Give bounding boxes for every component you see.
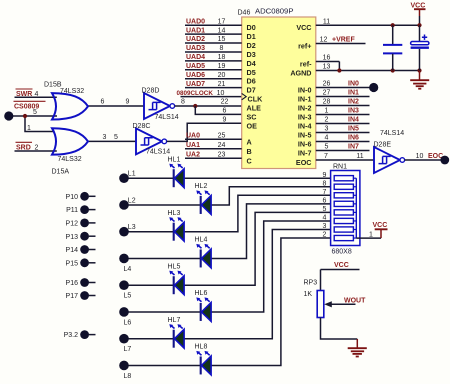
svg-text:OE: OE bbox=[247, 121, 258, 130]
svg-text:D46: D46 bbox=[238, 10, 251, 17]
wire 0809CLOCK to CLK pin10 bbox=[181, 96, 242, 98]
svg-text:P11: P11 bbox=[66, 207, 78, 214]
wire D28E out pin10 to EOC terminal bbox=[405, 159, 444, 161]
svg-text:28: 28 bbox=[323, 99, 331, 106]
svg-text:D6: D6 bbox=[247, 77, 256, 86]
resistor RN1 element 6 bbox=[334, 218, 353, 223]
svg-text:SRD: SRD bbox=[16, 144, 31, 151]
svg-text:74LS14: 74LS14 bbox=[155, 114, 179, 121]
VCC stem bbox=[419, 9, 421, 16]
svg-text:UA0: UA0 bbox=[186, 133, 200, 140]
svg-text:D3: D3 bbox=[247, 50, 256, 59]
wire IN0 stub bbox=[316, 87, 370, 89]
power VCC at RN1 bbox=[375, 228, 388, 230]
svg-text:18: 18 bbox=[218, 54, 226, 61]
svg-text:22: 22 bbox=[221, 99, 229, 106]
svg-text:IN-2: IN-2 bbox=[298, 104, 312, 113]
wire UA0 stub bbox=[185, 138, 242, 140]
svg-text:UA1: UA1 bbox=[186, 142, 200, 149]
svg-text:VCC: VCC bbox=[296, 23, 311, 32]
wire CS0809 to D15B pin5 bbox=[13, 115, 57, 117]
svg-text:L2: L2 bbox=[128, 197, 136, 204]
wire SWR to D15B pin4 bbox=[15, 96, 57, 98]
junction ALE/SC node bbox=[193, 104, 197, 108]
svg-text:9: 9 bbox=[323, 172, 327, 179]
svg-text:D1: D1 bbox=[247, 32, 256, 41]
svg-text:IN-3: IN-3 bbox=[298, 113, 312, 122]
terminal L5 bbox=[119, 280, 129, 290]
svg-text:P14: P14 bbox=[66, 247, 79, 254]
svg-text:12: 12 bbox=[320, 37, 328, 44]
wire RP3 bottom to ground bbox=[321, 318, 358, 340]
svg-text:ADC0809P: ADC0809P bbox=[255, 7, 293, 16]
wire UA2 stub bbox=[185, 157, 242, 159]
svg-text:2: 2 bbox=[325, 117, 329, 124]
svg-text:11: 11 bbox=[356, 153, 363, 160]
LED HL5 bbox=[169, 271, 184, 295]
svg-text:IN-0: IN-0 bbox=[298, 86, 312, 95]
svg-text:IN-6: IN-6 bbox=[298, 140, 312, 149]
junction C1 bottom bbox=[391, 68, 395, 72]
svg-text:3: 3 bbox=[325, 126, 329, 133]
terminal P11 bbox=[80, 205, 89, 214]
LED HL7 bbox=[169, 324, 184, 348]
terminal P12 bbox=[80, 219, 89, 228]
svg-text:C: C bbox=[247, 156, 252, 165]
clock input mark on CLK bbox=[242, 93, 247, 99]
svg-text:IN1: IN1 bbox=[348, 90, 359, 97]
wire RP3 top lead bbox=[320, 270, 322, 291]
svg-text:SWR: SWR bbox=[16, 91, 32, 98]
wire D28D out pin8 to ALE pin22 bbox=[175, 105, 242, 107]
wire EOC pin7 to D28E bbox=[316, 159, 374, 161]
svg-text:1K: 1K bbox=[304, 291, 313, 298]
svg-text:UAD0: UAD0 bbox=[186, 18, 205, 25]
terminal P14 bbox=[80, 245, 89, 254]
svg-text:D15A: D15A bbox=[52, 169, 70, 176]
svg-text:3: 3 bbox=[103, 134, 107, 141]
wire ref- pin16 bbox=[316, 61, 340, 63]
svg-text:4: 4 bbox=[35, 91, 39, 98]
overline SWR bbox=[16, 88, 33, 90]
svg-text:WOUT: WOUT bbox=[344, 298, 366, 305]
svg-text:25: 25 bbox=[218, 133, 226, 140]
svg-text:3: 3 bbox=[323, 223, 327, 230]
wire UAD3 stub bbox=[185, 51, 242, 53]
wire D28C out pin6 to OE pin9 bbox=[167, 123, 242, 141]
svg-text:P13: P13 bbox=[66, 234, 79, 241]
LED HL3 bbox=[169, 217, 184, 241]
svg-text:14: 14 bbox=[218, 27, 226, 34]
resistor RN1 element 5 bbox=[334, 210, 353, 215]
wire L2 row to RN1 pin8 bbox=[124, 187, 331, 205]
capacitor C1 bbox=[392, 25, 394, 44]
LED HL1 bbox=[169, 164, 184, 188]
svg-text:RP3: RP3 bbox=[304, 280, 318, 287]
inverter D28D 74LS14 bbox=[144, 93, 175, 119]
wire UAD4 stub bbox=[185, 60, 242, 62]
terminal P16 bbox=[80, 278, 89, 287]
svg-text:UAD3: UAD3 bbox=[186, 45, 205, 52]
overline SRD bbox=[16, 141, 33, 143]
wire SRD to D15A pin2 bbox=[15, 150, 57, 152]
resistor RN1 element 7 bbox=[334, 227, 353, 232]
LED HL8 bbox=[196, 351, 211, 375]
svg-text:15: 15 bbox=[218, 36, 226, 43]
svg-text:1: 1 bbox=[325, 108, 329, 115]
svg-text:+VREF: +VREF bbox=[332, 37, 355, 44]
svg-text:16: 16 bbox=[323, 55, 331, 62]
svg-text:IN5: IN5 bbox=[348, 126, 359, 133]
svg-text:680X8: 680X8 bbox=[332, 248, 352, 255]
svg-text:26: 26 bbox=[323, 81, 331, 88]
stub P11 bbox=[89, 209, 96, 211]
terminal P17 bbox=[80, 291, 89, 300]
wire IN5 stub bbox=[316, 132, 370, 134]
svg-text:74LS32: 74LS32 bbox=[58, 156, 82, 163]
inverter D28E 74LS14 bbox=[374, 147, 405, 173]
svg-text:UAD6: UAD6 bbox=[186, 72, 205, 79]
svg-text:HL3: HL3 bbox=[168, 210, 181, 217]
svg-text:D28C: D28C bbox=[133, 123, 151, 130]
wire L8 row to RN1 pin2 bbox=[124, 238, 331, 365]
wire CS0809 branch to D15A pin1 bbox=[25, 116, 54, 132]
svg-text:8: 8 bbox=[220, 45, 224, 52]
wire L1 row to RN1 pin9 bbox=[124, 177, 331, 179]
wire D15A out pin3 to D28C in pin5 bbox=[88, 140, 136, 142]
svg-text:D4: D4 bbox=[247, 59, 256, 68]
svg-text:HL4: HL4 bbox=[195, 237, 208, 244]
VCC stem lower bbox=[419, 16, 421, 25]
svg-text:5: 5 bbox=[323, 206, 327, 213]
svg-text:B: B bbox=[247, 147, 252, 156]
svg-text:HL6: HL6 bbox=[195, 290, 208, 297]
terminal L1 bbox=[119, 173, 129, 183]
svg-text:UAD7: UAD7 bbox=[186, 81, 205, 88]
terminal L4 bbox=[119, 254, 129, 264]
wire UAD1 stub bbox=[185, 33, 242, 35]
svg-text:4: 4 bbox=[323, 215, 327, 222]
svg-text:L5: L5 bbox=[124, 293, 132, 300]
wire UA1 stub bbox=[185, 148, 242, 150]
wire IN7 stub bbox=[316, 150, 370, 152]
junction C2 bottom bbox=[417, 68, 421, 72]
svg-text:6: 6 bbox=[223, 108, 227, 115]
wire UAD6 stub bbox=[185, 78, 242, 80]
svg-text:6: 6 bbox=[323, 197, 327, 204]
junction CS0809 branch bbox=[23, 114, 27, 118]
stub P12 bbox=[89, 222, 96, 224]
svg-text:5: 5 bbox=[33, 109, 37, 116]
terminal P3.2 bbox=[80, 330, 89, 339]
svg-text:D5: D5 bbox=[247, 68, 256, 77]
svg-text:D2: D2 bbox=[247, 41, 256, 50]
wire +VREF stub pin12 bbox=[316, 43, 366, 45]
svg-text:L1: L1 bbox=[128, 171, 136, 178]
terminal L7 bbox=[119, 334, 129, 344]
svg-text:IN4: IN4 bbox=[348, 117, 359, 124]
stub P14 bbox=[89, 249, 96, 251]
stub P3.2 bbox=[89, 334, 96, 336]
svg-text:4: 4 bbox=[325, 135, 329, 142]
terminal P15 bbox=[80, 258, 89, 267]
svg-text:L6: L6 bbox=[124, 319, 132, 326]
resistor RN1 element 3 bbox=[334, 193, 353, 198]
svg-text:L8: L8 bbox=[124, 373, 132, 380]
svg-text:74LS14: 74LS14 bbox=[146, 149, 170, 156]
wire D15B out pin6 to D28D in pin9 bbox=[88, 105, 144, 107]
resistor RN1 element 8 bbox=[334, 235, 353, 240]
terminal P13 bbox=[80, 232, 89, 241]
wire IN6 stub bbox=[316, 141, 370, 143]
wire L5 row to RN1 pin5 bbox=[124, 212, 331, 285]
svg-text:IN-7: IN-7 bbox=[298, 149, 312, 158]
wire ref- drop bbox=[338, 62, 340, 71]
svg-text:ref-: ref- bbox=[300, 60, 312, 69]
svg-text:SC: SC bbox=[247, 112, 257, 121]
svg-text:VCC: VCC bbox=[334, 262, 349, 269]
svg-text:27: 27 bbox=[323, 90, 331, 97]
svg-text:D0: D0 bbox=[247, 23, 256, 32]
svg-text:2: 2 bbox=[35, 144, 39, 151]
wire WOUT stub bbox=[330, 303, 356, 305]
svg-text:P16: P16 bbox=[66, 280, 79, 287]
svg-text:RN1: RN1 bbox=[333, 163, 347, 170]
svg-text:VCC: VCC bbox=[411, 2, 426, 9]
svg-text:2: 2 bbox=[323, 232, 327, 239]
ground at RP3 bbox=[356, 339, 358, 348]
IC D46 ADC0809P body bbox=[242, 17, 316, 169]
wire L6 row to RN1 pin4 bbox=[124, 221, 331, 312]
svg-text:D28D: D28D bbox=[142, 87, 160, 94]
resistor RN1 element 2 bbox=[334, 184, 353, 189]
wire IN2 stub bbox=[316, 105, 370, 107]
svg-text:UAD2: UAD2 bbox=[186, 36, 205, 43]
svg-text:L4: L4 bbox=[124, 266, 132, 273]
svg-text:AGND: AGND bbox=[290, 69, 311, 78]
svg-text:1: 1 bbox=[27, 125, 31, 132]
terminal EOC bbox=[440, 156, 449, 165]
svg-text:IN-5: IN-5 bbox=[298, 131, 312, 140]
wire UAD7 stub bbox=[185, 87, 242, 89]
wire IN1 stub bbox=[316, 96, 370, 98]
svg-text:7: 7 bbox=[324, 153, 328, 160]
wire UAD5 stub bbox=[185, 69, 242, 71]
svg-text:5: 5 bbox=[114, 134, 118, 141]
svg-text:D28E: D28E bbox=[374, 142, 392, 149]
svg-text:UAD5: UAD5 bbox=[186, 63, 205, 70]
wire L3 row to RN1 pin7 bbox=[124, 195, 331, 231]
svg-text:L3: L3 bbox=[128, 224, 136, 231]
svg-text:24: 24 bbox=[218, 142, 226, 149]
svg-text:UA2: UA2 bbox=[186, 152, 200, 159]
wire UAD2 stub bbox=[185, 42, 242, 44]
wire IN3 stub bbox=[316, 114, 370, 116]
stub P16 bbox=[89, 282, 96, 284]
svg-text:5: 5 bbox=[325, 144, 329, 151]
svg-text:1: 1 bbox=[369, 231, 373, 238]
junction C1 top bbox=[391, 23, 395, 27]
terminal CS0809 bbox=[4, 111, 13, 120]
svg-text:19: 19 bbox=[218, 63, 226, 70]
ground AGND symbol bbox=[419, 71, 421, 81]
wire IN4 stub bbox=[316, 123, 370, 125]
svg-text:74LS14: 74LS14 bbox=[380, 130, 404, 137]
stub P13 bbox=[89, 235, 96, 237]
svg-text:7: 7 bbox=[323, 189, 327, 196]
svg-text:17: 17 bbox=[218, 18, 226, 25]
svg-text:UAD1: UAD1 bbox=[186, 27, 205, 34]
svg-text:HL2: HL2 bbox=[195, 183, 208, 190]
resistor network RN1 680X8 bbox=[331, 171, 360, 246]
svg-text:IN-1: IN-1 bbox=[298, 95, 312, 104]
wire RN1 pin1 to VCC bbox=[356, 237, 381, 239]
terminal IN0 bbox=[369, 83, 378, 92]
LED HL6 bbox=[196, 297, 211, 321]
stub P17 bbox=[89, 295, 96, 297]
junction C2 top bbox=[417, 23, 421, 27]
svg-text:ALE: ALE bbox=[247, 103, 262, 112]
svg-text:13: 13 bbox=[323, 64, 331, 71]
svg-text:9: 9 bbox=[126, 99, 130, 106]
LED HL2 bbox=[196, 190, 211, 214]
svg-text:P10: P10 bbox=[66, 194, 79, 201]
terminal L2 bbox=[119, 200, 129, 210]
svg-text:IN6: IN6 bbox=[348, 135, 359, 142]
svg-text:10: 10 bbox=[416, 153, 424, 160]
stub P15 bbox=[89, 262, 96, 264]
svg-text:HL5: HL5 bbox=[168, 263, 181, 270]
svg-text:IN-4: IN-4 bbox=[298, 122, 312, 131]
or-gate D15B 74LS32 bbox=[52, 93, 88, 119]
svg-text:IN0: IN0 bbox=[348, 81, 359, 88]
svg-text:74LS32: 74LS32 bbox=[60, 88, 84, 95]
svg-text:HL8: HL8 bbox=[195, 344, 208, 351]
svg-text:EOC: EOC bbox=[296, 158, 312, 167]
plus sign of C2 bbox=[422, 35, 427, 40]
svg-text:HL1: HL1 bbox=[168, 156, 181, 163]
svg-text:P17: P17 bbox=[66, 293, 79, 300]
svg-text:20: 20 bbox=[218, 72, 226, 79]
svg-text:UAD4: UAD4 bbox=[186, 54, 205, 61]
svg-text:IN3: IN3 bbox=[348, 108, 359, 115]
wire L7 row to RN1 pin3 bbox=[124, 230, 331, 339]
junction ref-/AGND bbox=[337, 68, 341, 72]
svg-text:8: 8 bbox=[181, 99, 185, 106]
svg-text:IN2: IN2 bbox=[348, 99, 359, 106]
terminal P10 bbox=[80, 192, 89, 201]
wire junction to SC pin6 bbox=[195, 106, 241, 114]
resistor RN1 element 1 bbox=[334, 176, 353, 181]
svg-text:6: 6 bbox=[101, 99, 105, 106]
svg-text:ref+: ref+ bbox=[298, 42, 311, 51]
or-gate D15A 74LS32 bbox=[52, 128, 88, 154]
svg-text:8: 8 bbox=[323, 180, 327, 187]
terminal L8 bbox=[119, 361, 129, 371]
capacitor C2 polarized bbox=[419, 25, 421, 41]
power VCC top-right bbox=[414, 8, 426, 10]
inverter D28C 74LS14 bbox=[136, 128, 167, 154]
wire AGND pin13 bbox=[316, 70, 420, 72]
svg-text:P12: P12 bbox=[66, 221, 79, 228]
resistor RN1 element 4 bbox=[334, 201, 353, 206]
svg-text:9: 9 bbox=[223, 117, 227, 124]
terminal L3 bbox=[119, 227, 129, 237]
terminal L6 bbox=[119, 307, 129, 317]
svg-text:D7: D7 bbox=[247, 86, 256, 95]
wire UAD0 stub bbox=[185, 24, 242, 26]
svg-text:IN7: IN7 bbox=[348, 144, 359, 151]
svg-text:P15: P15 bbox=[66, 260, 79, 267]
svg-text:P3.2: P3.2 bbox=[64, 332, 79, 339]
wire L4 row to RN1 pin6 bbox=[124, 204, 331, 259]
svg-text:A: A bbox=[247, 137, 252, 146]
svg-text:10: 10 bbox=[217, 90, 225, 97]
svg-text:L7: L7 bbox=[124, 346, 132, 353]
wire RP3 top VCC bbox=[321, 269, 360, 271]
overline CS0809 bbox=[14, 100, 46, 102]
svg-text:HL7: HL7 bbox=[168, 317, 181, 324]
stub P10 bbox=[89, 195, 96, 197]
wire VCC pin11 bbox=[316, 24, 420, 26]
svg-text:VCC: VCC bbox=[373, 222, 388, 229]
svg-text:21: 21 bbox=[218, 81, 226, 88]
svg-text:11: 11 bbox=[323, 18, 330, 25]
svg-text:23: 23 bbox=[218, 152, 226, 159]
svg-text:0809CLOCK: 0809CLOCK bbox=[177, 90, 214, 97]
svg-text:CLK: CLK bbox=[248, 95, 264, 104]
LED HL4 bbox=[196, 244, 211, 268]
